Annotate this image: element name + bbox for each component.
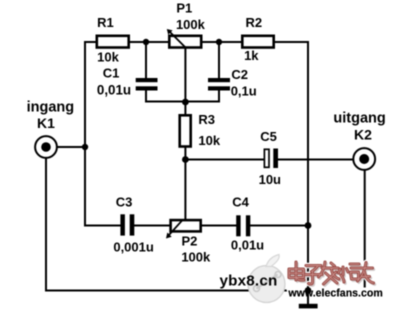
svg-text:100k: 100k (181, 250, 211, 265)
svg-text:10k: 10k (198, 133, 220, 148)
svg-text:uitgang: uitgang (333, 111, 385, 127)
svg-text:0,1u: 0,1u (231, 84, 257, 99)
svg-text:P1: P1 (176, 1, 192, 16)
svg-text:K1: K1 (37, 115, 55, 131)
svg-text:10k: 10k (97, 50, 119, 65)
svg-text:C3: C3 (116, 195, 133, 210)
svg-text:K2: K2 (354, 127, 372, 143)
svg-text:www.elecfans.com: www.elecfans.com (287, 288, 382, 300)
svg-text:ingang: ingang (27, 100, 75, 116)
svg-text:C2: C2 (231, 67, 248, 82)
svg-text:ybx8.cn: ybx8.cn (220, 272, 278, 289)
svg-text:0,01u: 0,01u (231, 238, 264, 253)
svg-text:R3: R3 (198, 112, 215, 127)
svg-text:0,001u: 0,001u (113, 239, 154, 254)
svg-text:C5: C5 (260, 129, 277, 144)
svg-text:P2: P2 (181, 234, 197, 249)
svg-text:R2: R2 (245, 15, 262, 30)
svg-text:R1: R1 (97, 15, 114, 30)
svg-text:C4: C4 (232, 195, 249, 210)
svg-text:0,01u: 0,01u (97, 83, 131, 98)
svg-text:C1: C1 (103, 66, 120, 81)
svg-text:10u: 10u (259, 172, 281, 187)
svg-text:1k: 1k (244, 48, 259, 63)
svg-text:100k: 100k (176, 17, 206, 32)
